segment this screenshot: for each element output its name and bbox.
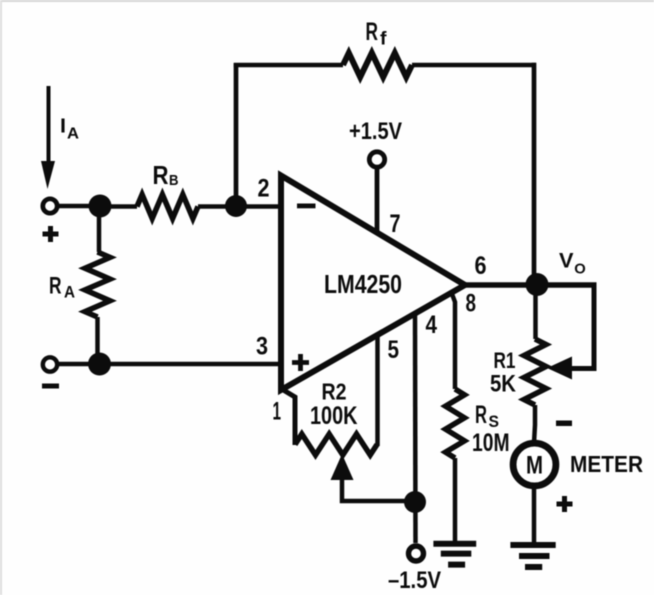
- node C junction dot: [88, 353, 111, 376]
- wire: RB to node B / op-amp pin2: [198, 204, 280, 209]
- label - polarity: [42, 384, 59, 389]
- ground: RS: [433, 544, 476, 565]
- wire: output pin6: [464, 282, 597, 288]
- terminal: -1.5V open circle: [409, 546, 424, 561]
- svg-text:I: I: [60, 116, 66, 138]
- resistor RS: [446, 389, 465, 458]
- potentiometer R1: [524, 339, 546, 405]
- wire: IA current arrow shaft: [47, 86, 51, 165]
- svg-text:5K: 5K: [490, 371, 517, 398]
- wire: pin5 to R2 right: [375, 334, 380, 446]
- svg-text:5: 5: [388, 336, 400, 364]
- scan edge artifact left: [0, 0, 2, 595]
- svg-text:2: 2: [258, 175, 270, 203]
- R1 wiper arrowhead: [547, 357, 572, 380]
- svg-text:+1.5V: +1.5V: [349, 118, 402, 145]
- svg-text:LM4250: LM4250: [324, 269, 402, 299]
- svg-text:4: 4: [426, 311, 438, 339]
- svg-text:METER: METER: [570, 451, 643, 477]
- op-amp plus input mark: [292, 354, 309, 371]
- svg-text:100K: 100K: [310, 402, 358, 430]
- node B junction dot: [225, 195, 247, 217]
- wire: VO to R1 wiper loop: [570, 283, 594, 369]
- wire: pin1 to R2 left: [280, 388, 295, 445]
- node A junction dot: [89, 195, 112, 218]
- IA arrowhead: [41, 161, 55, 189]
- svg-text:f: f: [380, 29, 388, 49]
- scan edge artifact top: [0, 0, 654, 2]
- svg-text:A: A: [67, 126, 79, 143]
- svg-text:R: R: [475, 401, 487, 429]
- terminal: + input open circle: [43, 199, 57, 213]
- svg-text:V: V: [559, 250, 574, 273]
- svg-text:6: 6: [475, 252, 487, 280]
- wire: R2 wiper to node E: [342, 478, 415, 501]
- svg-text:3: 3: [256, 333, 268, 361]
- label + meter polarity: [557, 496, 573, 512]
- svg-text:M: M: [526, 452, 543, 480]
- wire: R1 to meter: [534, 405, 535, 443]
- wire: +input to node A: [58, 204, 94, 209]
- wire: pin8 to RS: [452, 294, 455, 389]
- svg-text:1: 1: [273, 398, 282, 426]
- wire: feedback right drop to output: [532, 63, 537, 280]
- svg-text:7: 7: [390, 210, 401, 238]
- resistor Rf: [343, 53, 412, 77]
- svg-text:8: 8: [466, 290, 477, 318]
- wire: feedback top left: [234, 63, 343, 68]
- svg-text:B: B: [169, 172, 179, 189]
- svg-text:–1.5V: –1.5V: [388, 567, 441, 594]
- node E junction dot: [404, 491, 426, 513]
- wire: feedback top right: [412, 63, 536, 68]
- R2 wiper arrowhead: [331, 454, 354, 480]
- svg-text:10M: 10M: [472, 429, 510, 457]
- op-amp minus input mark: [297, 204, 316, 209]
- resistor RA: [97, 206, 102, 252]
- terminal: - input open circle: [43, 357, 57, 371]
- ground: meter: [510, 545, 555, 567]
- svg-text:R: R: [153, 160, 169, 190]
- op-amp U1 triangle: [281, 176, 465, 391]
- wire: node A to RB: [100, 204, 137, 209]
- wire: +1.5V to pin7: [375, 167, 380, 231]
- wire: pin4 down to -1.5V: [413, 313, 418, 543]
- wire: output node to R1: [533, 284, 538, 339]
- svg-text:R2: R2: [322, 379, 347, 405]
- meter M1 circle: [513, 443, 556, 486]
- wire: RS to ground: [453, 458, 458, 541]
- potentiometer R2: [295, 434, 377, 455]
- resistor RB: [137, 195, 198, 219]
- svg-text:R: R: [49, 273, 62, 300]
- node D output junction dot: [526, 273, 549, 296]
- terminal: +1.5V open circle: [369, 152, 384, 167]
- wire: feedback left riser: [234, 63, 239, 206]
- wire: meter to ground: [532, 487, 537, 545]
- svg-text:R: R: [366, 18, 379, 46]
- label + polarity: [43, 226, 59, 242]
- svg-text:A: A: [64, 284, 75, 302]
- svg-text:R1: R1: [494, 348, 516, 373]
- svg-text:O: O: [574, 261, 586, 278]
- label - meter polarity: [556, 421, 572, 427]
- wire: - input to op-amp pin3: [58, 362, 280, 367]
